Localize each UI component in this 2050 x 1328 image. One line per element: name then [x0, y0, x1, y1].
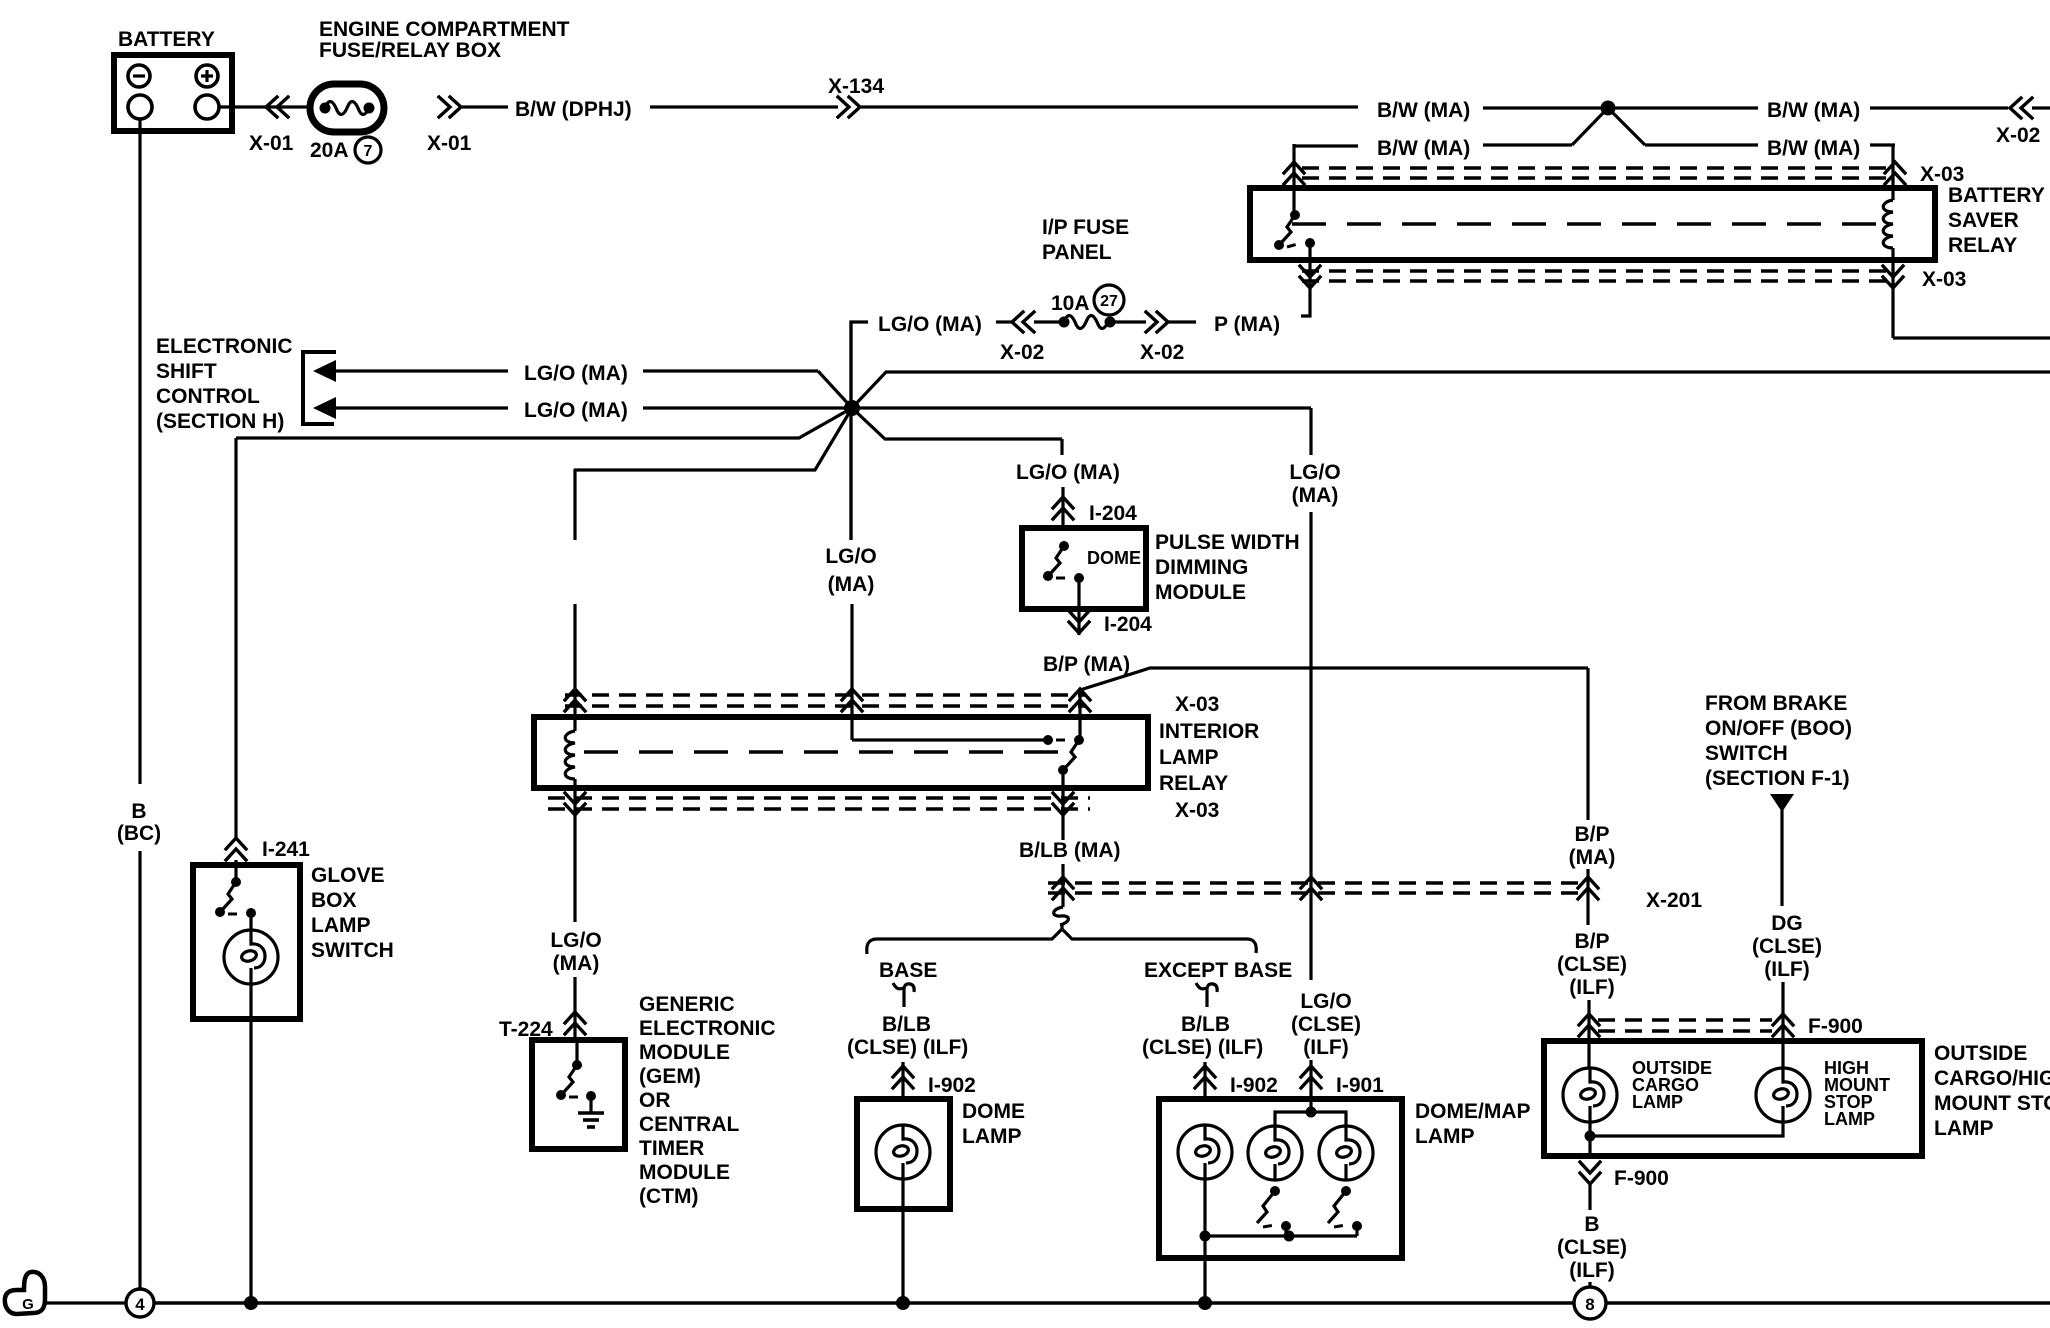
ground bus	[154, 1301, 1575, 1305]
svg-text:LAMP: LAMP	[962, 1125, 1022, 1148]
svg-text:(MA): (MA)	[828, 573, 875, 596]
svg-text:B: B	[1584, 1213, 1599, 1236]
dome/map lamp	[1159, 1099, 1402, 1258]
connector X-03 lower arrows	[1300, 266, 1320, 288]
wire dome/map common	[1205, 1234, 1357, 1237]
GEM switch	[556, 1042, 596, 1101]
svg-text:ELECTRONIC: ELECTRONIC	[156, 335, 293, 358]
connector I-902 right	[1203, 1062, 1206, 1099]
svg-text:I-902: I-902	[928, 1074, 976, 1097]
node B/W junction	[1601, 101, 1616, 116]
wire LG/O (MA) row1	[336, 369, 508, 372]
svg-text:7: 7	[364, 143, 373, 160]
svg-text:B/LB (MA): B/LB (MA)	[1019, 839, 1120, 862]
svg-text:RELAY: RELAY	[1159, 772, 1228, 795]
high mount stop bulb	[1756, 1068, 1810, 1122]
node LG/O junction	[844, 400, 860, 416]
wire DG (CLSE)(ILF)	[1780, 810, 1783, 906]
node circled 8	[1574, 1287, 1606, 1319]
svg-text:GLOVE: GLOVE	[311, 864, 385, 887]
wire B/W (MA) to X-02	[1615, 106, 1758, 109]
wire B/W (MA) second row right	[1645, 143, 1758, 146]
wire row3	[236, 408, 1062, 439]
svg-text:LG/O: LG/O	[550, 929, 601, 952]
svg-text:X-03: X-03	[1175, 693, 1219, 716]
svg-text:I-901: I-901	[1336, 1074, 1384, 1097]
svg-text:I-204: I-204	[1089, 502, 1137, 525]
wire ground to bus	[46, 1301, 127, 1304]
dome lamp	[857, 1099, 950, 1209]
wire junction diagonals	[1572, 112, 1645, 145]
fuse element	[1034, 316, 1146, 329]
svg-text:(CTM): (CTM)	[639, 1185, 698, 1208]
wire glove box drop	[234, 438, 237, 838]
connector X-03 arrows below interior relay	[565, 793, 585, 815]
svg-text:(MA): (MA)	[1569, 846, 1616, 869]
wire row2 right to LG/O drop	[852, 406, 1311, 409]
svg-text:I-241: I-241	[262, 838, 310, 861]
svg-text:LAMP: LAMP	[1415, 1125, 1475, 1148]
BASE option hook	[893, 983, 914, 1007]
svg-text:LG/O: LG/O	[825, 545, 876, 568]
svg-text:I-204: I-204	[1104, 613, 1152, 636]
wire relay left lead	[1292, 144, 1295, 215]
BOO feed arrow	[1770, 794, 1794, 812]
svg-text:MODULE: MODULE	[639, 1161, 730, 1184]
svg-text:X-03: X-03	[1175, 799, 1219, 822]
ESC arrow 1	[313, 360, 336, 382]
svg-text:EXCEPT BASE: EXCEPT BASE	[1144, 959, 1292, 982]
svg-text:LG/O (MA): LG/O (MA)	[1016, 461, 1120, 484]
svg-text:X-02: X-02	[1000, 341, 1044, 364]
battery	[114, 55, 232, 133]
dome/map bulb 3	[1319, 1126, 1373, 1180]
wire bulb1 to bus	[1203, 1179, 1206, 1303]
svg-text:OUTSIDE: OUTSIDE	[1934, 1042, 2027, 1065]
battery saver relay	[1250, 188, 1935, 260]
svg-text:FUSE/RELAY BOX: FUSE/RELAY BOX	[319, 39, 501, 62]
wire B/LB below label	[1061, 864, 1064, 907]
svg-text:MOUNT STOP: MOUNT STOP	[1934, 1092, 2050, 1115]
wire B/W (MA) top	[861, 105, 1358, 108]
svg-text:B/W (MA): B/W (MA)	[1767, 99, 1860, 122]
svg-text:10A: 10A	[1051, 292, 1090, 315]
wire B/W (DPHJ)	[462, 105, 508, 108]
svg-text:I/P FUSE: I/P FUSE	[1042, 216, 1129, 239]
wire relay output to P (MA)	[1301, 243, 1310, 316]
svg-text:B/W (MA): B/W (MA)	[1377, 99, 1470, 122]
connector F-900 lower	[1580, 1162, 1600, 1184]
svg-text:X-134: X-134	[828, 75, 884, 98]
outside cargo bulb	[1563, 1068, 1617, 1122]
svg-text:B/W (MA): B/W (MA)	[1767, 137, 1860, 160]
interior relay linkage dashed	[584, 750, 1066, 754]
wire LG/O (MA) to PWM module	[1060, 439, 1063, 455]
glove box bulb	[224, 930, 278, 984]
fuse 20A (7)	[310, 84, 384, 163]
connector X-01 right arrow	[439, 97, 461, 117]
svg-text:LG/O: LG/O	[1300, 990, 1351, 1013]
glove box lamp switch	[193, 865, 300, 1019]
svg-text:X-201: X-201	[1646, 889, 1702, 912]
svg-text:X-03: X-03	[1922, 268, 1966, 291]
svg-text:DOME/MAP: DOME/MAP	[1415, 1100, 1531, 1123]
svg-text:(CLSE): (CLSE)	[1557, 953, 1627, 976]
wire dome lamp to bus	[901, 1179, 904, 1303]
svg-text:(CLSE): (CLSE)	[1291, 1013, 1361, 1036]
svg-text:DOME: DOME	[962, 1100, 1025, 1123]
svg-text:(ILF): (ILF)	[1569, 976, 1614, 999]
svg-text:CONTROL: CONTROL	[156, 385, 260, 408]
connector I-204 upper	[1053, 497, 1073, 519]
node LG/O split	[1306, 1107, 1317, 1118]
svg-text:B/P (MA): B/P (MA)	[1043, 653, 1130, 676]
PWM switch	[1043, 541, 1084, 583]
relay linkage dashed	[1292, 222, 1884, 226]
svg-text:FROM BRAKE: FROM BRAKE	[1705, 692, 1847, 715]
wire PWM output	[1077, 578, 1080, 635]
connector I-901	[1301, 1066, 1321, 1088]
svg-text:PULSE WIDTH: PULSE WIDTH	[1155, 531, 1300, 554]
svg-text:8: 8	[1585, 1295, 1594, 1314]
svg-text:LG/O: LG/O	[1289, 461, 1340, 484]
svg-text:SWITCH: SWITCH	[1705, 742, 1788, 765]
svg-text:BATTERY: BATTERY	[1948, 184, 2045, 207]
svg-text:X-01: X-01	[427, 132, 472, 155]
svg-text:(BC): (BC)	[117, 822, 161, 845]
svg-text:PANEL: PANEL	[1042, 241, 1112, 264]
dome/map switch 2	[1257, 1186, 1291, 1236]
svg-text:20A: 20A	[310, 139, 349, 162]
dome lamp bulb	[876, 1125, 930, 1179]
wire LG/O (MA) row2	[336, 406, 508, 409]
dome/map bulb 1	[1178, 1125, 1232, 1179]
wire B/W (MA) second row left	[1294, 144, 1358, 147]
option brace	[867, 929, 1256, 954]
dome/map switch 3	[1328, 1186, 1362, 1236]
svg-text:SHIFT: SHIFT	[156, 360, 217, 383]
connector X-03 upper arrows	[1284, 162, 1304, 184]
svg-text:LG/O (MA): LG/O (MA)	[524, 362, 628, 385]
connector X-02 right arrow	[1146, 312, 1168, 332]
svg-text:LAMP: LAMP	[1632, 1092, 1683, 1112]
svg-text:MODULE: MODULE	[639, 1041, 730, 1064]
svg-text:BASE: BASE	[879, 959, 937, 982]
wire row1 right to edge	[852, 372, 2050, 408]
svg-text:LAMP: LAMP	[1934, 1117, 1994, 1140]
relay coil	[1883, 145, 1893, 338]
wire battery to fuse	[219, 105, 312, 108]
svg-text:(CLSE): (CLSE)	[1752, 935, 1822, 958]
svg-text:4: 4	[135, 1295, 145, 1314]
svg-text:SWITCH: SWITCH	[311, 939, 394, 962]
svg-text:(CLSE) (ILF): (CLSE) (ILF)	[1142, 1036, 1263, 1059]
connector I-902 left	[901, 1062, 904, 1099]
svg-text:B/W (MA): B/W (MA)	[1377, 137, 1470, 160]
svg-text:B/P: B/P	[1574, 823, 1609, 846]
relay switch	[1274, 210, 1315, 250]
svg-text:(SECTION F-1): (SECTION F-1)	[1705, 767, 1850, 790]
wire B (BC)	[138, 131, 141, 784]
wire P (MA)	[1168, 320, 1196, 323]
wire centre LG/O drop upper	[849, 322, 852, 540]
connector X-02 left arrow	[1012, 312, 1034, 332]
svg-text:INTERIOR: INTERIOR	[1159, 720, 1259, 743]
svg-text:B/W (DPHJ): B/W (DPHJ)	[515, 98, 632, 121]
svg-text:B/LB: B/LB	[1181, 1013, 1230, 1036]
svg-text:I-902: I-902	[1230, 1074, 1278, 1097]
svg-text:X-01: X-01	[249, 132, 294, 155]
GEM/CTM module	[532, 1040, 625, 1149]
connector X-201 arrows	[1053, 877, 1073, 899]
interior lamp relay	[534, 717, 1148, 788]
svg-text:P (MA): P (MA)	[1214, 313, 1280, 336]
svg-text:27: 27	[1100, 293, 1118, 310]
svg-text:LAMP: LAMP	[1824, 1109, 1875, 1129]
wire LG/O drop to dome/map lamp	[1309, 408, 1312, 455]
wire break symbol	[1054, 907, 1069, 925]
lamp common wire	[1585, 1122, 1784, 1156]
svg-text:(CLSE) (ILF): (CLSE) (ILF)	[847, 1036, 968, 1059]
svg-text:LG/O (MA): LG/O (MA)	[878, 313, 982, 336]
svg-text:F-900: F-900	[1808, 1015, 1863, 1038]
node circled 4	[126, 1289, 154, 1317]
connector T-224	[565, 1012, 585, 1034]
connector X-01 left arrow	[266, 97, 288, 117]
wire B/P drop	[1586, 668, 1589, 820]
svg-text:GENERIC: GENERIC	[639, 993, 735, 1016]
svg-text:CENTRAL: CENTRAL	[639, 1113, 739, 1136]
svg-text:(ILF): (ILF)	[1569, 1259, 1614, 1282]
ESC connector bracket	[303, 352, 336, 424]
svg-text:DG: DG	[1771, 912, 1803, 935]
svg-text:X-02: X-02	[1140, 341, 1184, 364]
wire relay coil to right edge	[1893, 336, 2050, 339]
svg-text:(ILF): (ILF)	[1764, 958, 1809, 981]
svg-text:LAMP: LAMP	[1159, 746, 1219, 769]
interior relay coil	[565, 469, 575, 922]
svg-text:F-900: F-900	[1614, 1167, 1669, 1190]
svg-text:(CLSE): (CLSE)	[1557, 1236, 1627, 1259]
svg-text:ON/OFF (BOO): ON/OFF (BOO)	[1705, 717, 1852, 740]
connector X-03 arrows above interior relay	[565, 689, 585, 711]
GEM internal ground	[578, 1096, 604, 1127]
svg-text:X-02: X-02	[1996, 124, 2040, 147]
wire B (CLSE)(ILF)	[1588, 1184, 1591, 1210]
svg-text:LAMP: LAMP	[311, 914, 371, 937]
svg-text:B/P: B/P	[1574, 930, 1609, 953]
connector I-241	[226, 838, 246, 860]
svg-text:ELECTRONIC: ELECTRONIC	[639, 1017, 776, 1040]
svg-text:B: B	[131, 800, 146, 823]
connector F-900 arrows	[1579, 1014, 1599, 1036]
svg-text:OR: OR	[639, 1089, 671, 1112]
svg-text:G: G	[22, 1296, 34, 1313]
svg-text:B/LB: B/LB	[882, 1013, 931, 1036]
svg-text:(MA): (MA)	[553, 952, 600, 975]
fuse 10A (27)	[1051, 285, 1124, 315]
svg-text:TIMER: TIMER	[639, 1137, 704, 1160]
svg-text:X-03: X-03	[1920, 163, 1964, 186]
wire row4	[574, 408, 852, 470]
wire glove box to bus	[249, 984, 252, 1303]
ESC arrow 2	[313, 397, 336, 419]
interior relay switch	[852, 735, 1084, 775]
connector I-204 lower	[1069, 611, 1089, 633]
svg-text:CARGO/HIGH: CARGO/HIGH	[1934, 1067, 2050, 1090]
svg-text:BOX: BOX	[311, 889, 357, 912]
wire B/LB (MA)	[1061, 770, 1064, 840]
svg-text:SAVER: SAVER	[1948, 209, 2019, 232]
svg-text:(GEM): (GEM)	[639, 1065, 701, 1088]
EXCEPT BASE option hook	[1196, 983, 1217, 1007]
svg-text:(ILF): (ILF)	[1303, 1036, 1348, 1059]
svg-text:DOME: DOME	[1087, 548, 1141, 568]
svg-text:(MA): (MA)	[1292, 484, 1339, 507]
svg-text:(SECTION H): (SECTION H)	[156, 410, 284, 433]
svg-text:RELAY: RELAY	[1948, 234, 2017, 257]
svg-text:LG/O (MA): LG/O (MA)	[524, 399, 628, 422]
pulse width dimming module	[1022, 528, 1146, 609]
svg-text:BATTERY: BATTERY	[118, 28, 215, 51]
dome/map bulb 2	[1248, 1126, 1302, 1180]
wire LG/O (MA) to fuse	[851, 322, 868, 540]
svg-text:MODULE: MODULE	[1155, 581, 1246, 604]
glove box switch contacts	[215, 860, 256, 931]
ground G symbol	[5, 1272, 45, 1314]
outside cargo / high mount stop lamp box	[1544, 1041, 1922, 1156]
svg-text:DIMMING: DIMMING	[1155, 556, 1248, 579]
svg-text:ENGINE COMPARTMENT: ENGINE COMPARTMENT	[319, 18, 570, 41]
